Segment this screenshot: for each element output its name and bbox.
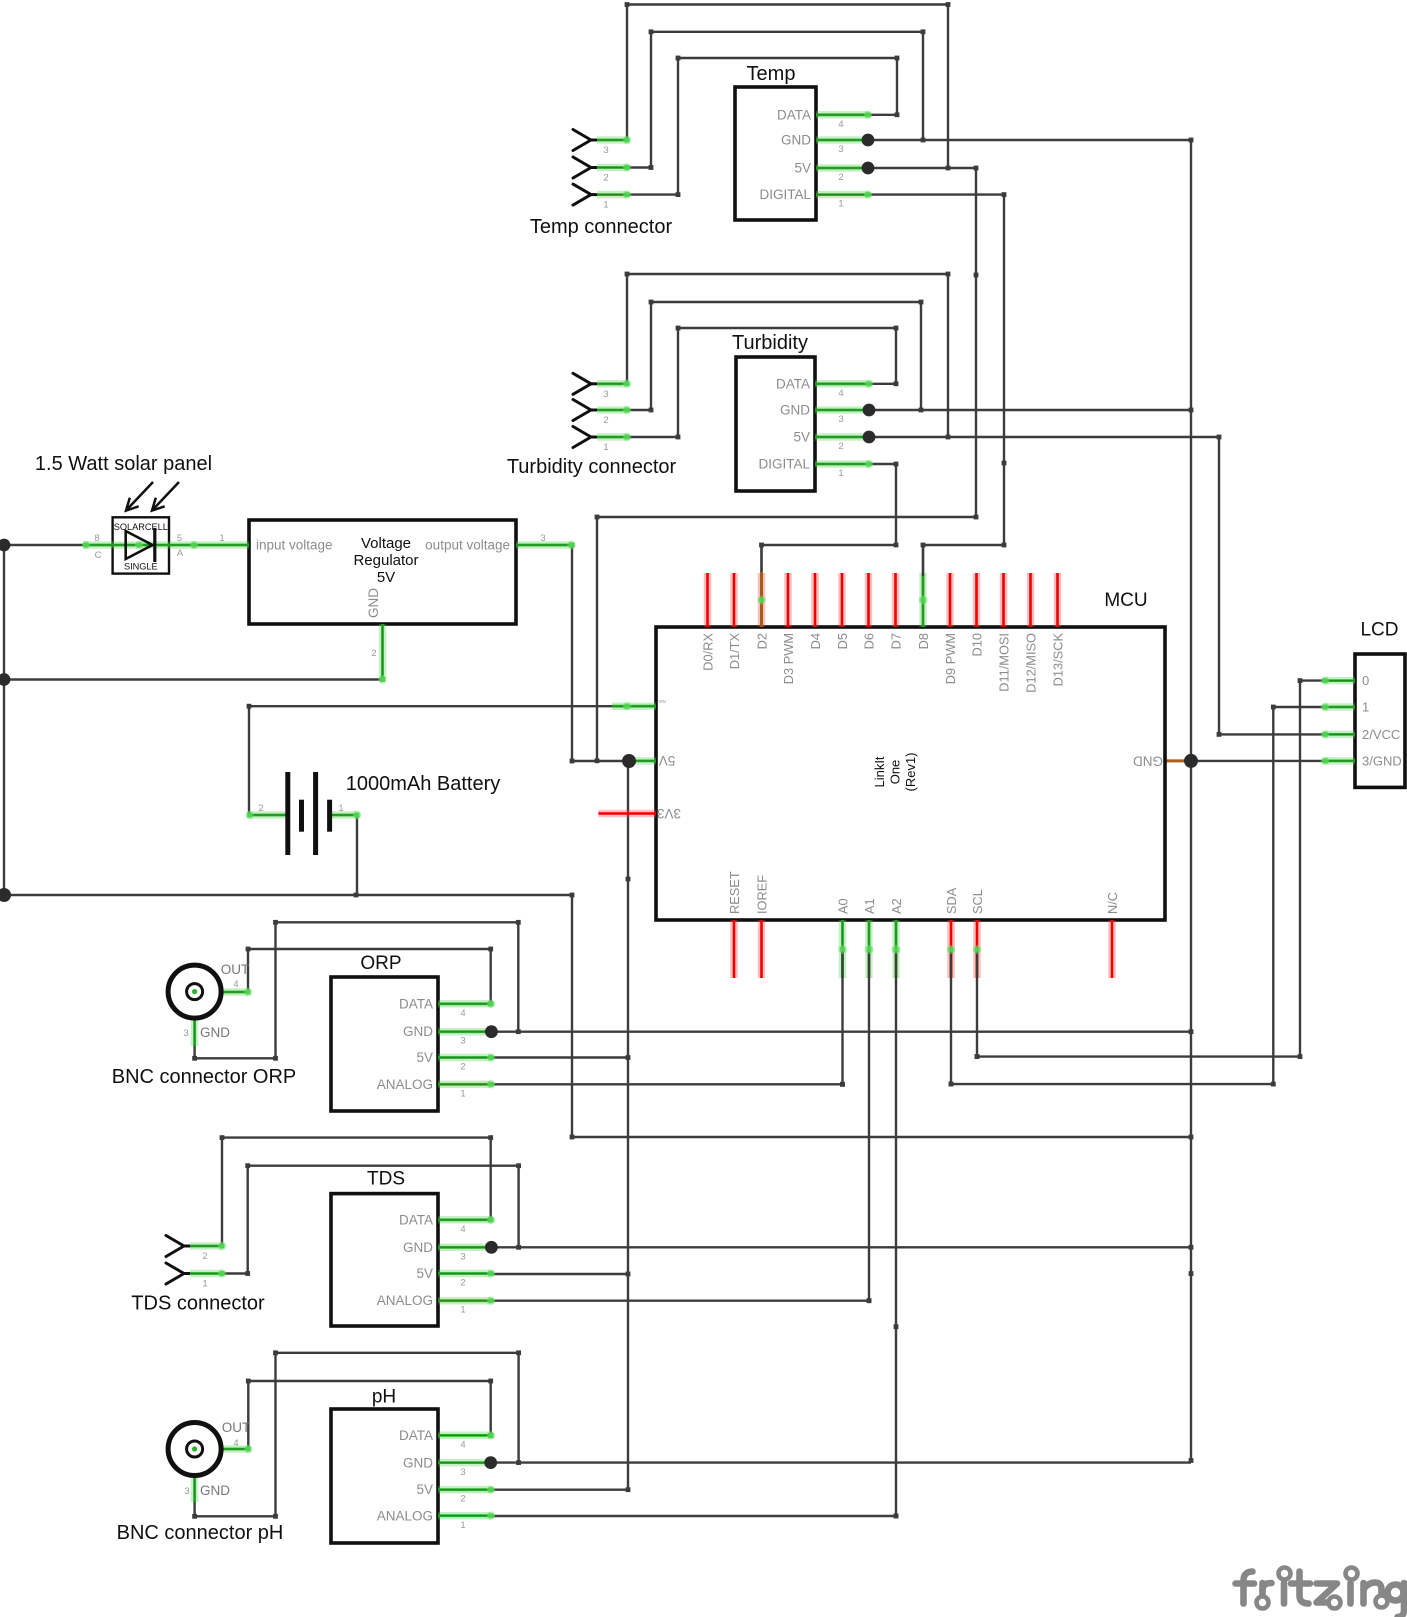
voltage regulator GND stub bbox=[378, 624, 386, 684]
svg-text:A0: A0 bbox=[836, 898, 851, 914]
wire Temp DIGITAL to MCU D8 bbox=[868, 192, 1006, 600]
svg-text:5V: 5V bbox=[377, 569, 395, 586]
svg-text:D7: D7 bbox=[889, 633, 904, 649]
svg-text:GND: GND bbox=[200, 1483, 230, 1498]
BNC connector ORP symbol bbox=[168, 965, 221, 1018]
TDS connector pin2 stub bbox=[190, 1242, 226, 1250]
ORP pin 5V stub bbox=[438, 1053, 495, 1061]
svg-text:D1/TX: D1/TX bbox=[727, 633, 742, 670]
svg-text:RESET: RESET bbox=[727, 871, 742, 914]
wire GND net branch to voltage regulator GND bbox=[4, 678, 383, 680]
wire ORP ANALOG to MCU A0 bbox=[492, 950, 845, 1087]
MCU pin D6 (unconnected, red) bbox=[865, 573, 873, 627]
svg-text:D11/MOSI: D11/MOSI bbox=[997, 633, 1012, 692]
svg-text:3: 3 bbox=[460, 1252, 465, 1263]
TDS pin GND stub bbox=[438, 1244, 491, 1252]
svg-text:2: 2 bbox=[603, 415, 608, 426]
svg-text:3: 3 bbox=[183, 1028, 188, 1039]
svg-text:SCL: SCL bbox=[970, 889, 985, 914]
svg-text:Temp connector: Temp connector bbox=[530, 216, 673, 238]
svg-text:1: 1 bbox=[460, 1088, 465, 1099]
svg-text:8: 8 bbox=[94, 533, 99, 544]
svg-text:Regulator: Regulator bbox=[353, 552, 418, 569]
Turbidity pin 5V stub bbox=[815, 433, 869, 441]
solar irradiance arrow 2 bbox=[152, 482, 179, 511]
svg-text:1: 1 bbox=[460, 1520, 465, 1531]
pH sensor block bbox=[331, 1409, 438, 1543]
battery pin2 stub bbox=[245, 811, 286, 819]
svg-text:DIGITAL: DIGITAL bbox=[758, 457, 810, 472]
MCU pin 3V3 (red) bbox=[598, 810, 656, 818]
svg-text:GND: GND bbox=[1133, 753, 1163, 768]
svg-text:D12/MISO: D12/MISO bbox=[1024, 633, 1039, 693]
ORP pin GND stub bbox=[438, 1028, 491, 1036]
BNC pH OUT stub bbox=[203, 1445, 253, 1453]
svg-text:DIGITAL: DIGITAL bbox=[759, 187, 811, 202]
svg-text:2: 2 bbox=[460, 1493, 465, 1504]
svg-text:GND: GND bbox=[403, 1024, 433, 1039]
TDS connector pin1 stub bbox=[190, 1269, 226, 1277]
wire 5V rail vertical (MCU 5V down to sensors) bbox=[627, 761, 629, 1490]
svg-text:input voltage: input voltage bbox=[256, 538, 333, 553]
svg-text:ANALOG: ANALOG bbox=[377, 1509, 433, 1524]
svg-text:DATA: DATA bbox=[399, 1428, 433, 1443]
svg-text:1: 1 bbox=[219, 533, 224, 544]
wire BNC pH GND loop to pH GND row bbox=[192, 1350, 521, 1518]
svg-text:1: 1 bbox=[603, 442, 608, 453]
wire GND rail to LCD 3/GND bbox=[1191, 760, 1325, 762]
TDS pin DATA stub bbox=[438, 1216, 495, 1224]
LCD block bbox=[1355, 654, 1405, 787]
svg-text:C: C bbox=[95, 550, 102, 561]
LCD pin 1 stub bbox=[1321, 703, 1355, 711]
MCU pin D7 (unconnected, red) bbox=[892, 573, 900, 627]
svg-text:3: 3 bbox=[603, 389, 608, 400]
svg-text:pH: pH bbox=[372, 1387, 396, 1408]
solar cell panel SOLARCELL SINGLE bbox=[113, 517, 169, 573]
svg-text:TDS: TDS bbox=[367, 1169, 405, 1190]
wire Temp connector pin3 to Temp sensor 5V net (top loop) bbox=[625, 2, 951, 168]
svg-text:D3 PWM: D3 PWM bbox=[781, 633, 796, 684]
wire pH 5V row to 5V rail end bbox=[491, 1488, 628, 1490]
wire ORP 5V row to 5V rail bbox=[492, 1056, 629, 1058]
Temp pin DIGITAL stub bbox=[816, 190, 872, 198]
svg-text:N/C: N/C bbox=[1105, 892, 1120, 914]
svg-text:4: 4 bbox=[460, 1439, 465, 1450]
svg-text:5V: 5V bbox=[416, 1266, 433, 1281]
svg-text:5V: 5V bbox=[659, 753, 676, 768]
pH pin 5V stub bbox=[438, 1486, 495, 1494]
solar cell diode symbol bbox=[126, 528, 155, 562]
MCU pin D3 PWM (unconnected, red) bbox=[784, 573, 792, 627]
svg-text:SINGLE: SINGLE bbox=[124, 562, 158, 572]
svg-text:Turbidity: Turbidity bbox=[732, 332, 808, 354]
svg-text:2: 2 bbox=[258, 803, 263, 814]
Turbidity pin DATA stub bbox=[815, 380, 873, 388]
wire Turbidity DIGITAL to MCU D2 bbox=[759, 462, 898, 600]
svg-text:D8: D8 bbox=[916, 633, 931, 649]
pH pin DATA stub bbox=[438, 1431, 495, 1439]
svg-text:GND: GND bbox=[200, 1025, 230, 1040]
junction battery GND rail bbox=[0, 888, 11, 902]
junction pH GND bbox=[484, 1456, 497, 1469]
svg-text:ANALOG: ANALOG bbox=[377, 1293, 433, 1308]
junction Turbidity GND bbox=[863, 404, 876, 417]
svg-text:A2: A2 bbox=[889, 898, 904, 914]
svg-text:OUT: OUT bbox=[222, 1420, 251, 1435]
Turbidity pin GND stub bbox=[815, 406, 869, 414]
MCU pin D13/SCK (unconnected, red) bbox=[1054, 573, 1062, 627]
wire TDS GND row to GND rail bbox=[491, 1246, 1191, 1248]
MCU pin D5 (unconnected, red) bbox=[838, 573, 846, 627]
junction ORP GND bbox=[485, 1025, 498, 1038]
svg-text:ANALOG: ANALOG bbox=[377, 1077, 433, 1092]
wire T-join bendpoints bbox=[946, 166, 951, 171]
svg-text:1: 1 bbox=[838, 468, 843, 479]
MCU pin SCL (connected) bbox=[973, 920, 981, 978]
svg-text:2: 2 bbox=[838, 441, 843, 452]
MCU pin N/C (red) bbox=[1108, 920, 1116, 978]
wire Temp GND row to GND rail bbox=[868, 139, 1191, 141]
wire Temp connector pin1 to Temp sensor DATA bbox=[627, 56, 899, 197]
wire Turbidity connector pin3 to Turbidity 5V net (top loop) bbox=[625, 272, 951, 437]
wire BNC ORP GND loop to ORP GND row bbox=[192, 920, 521, 1061]
svg-text:GND: GND bbox=[403, 1240, 433, 1255]
svg-text:1: 1 bbox=[338, 803, 343, 814]
wire Turbidity 5V row to LCD 2/VCC bbox=[869, 435, 1325, 737]
Temp connector pin1 stub bbox=[597, 190, 631, 198]
Temp connector pin2 stub bbox=[597, 163, 631, 171]
wire TDS 5V row to 5V rail bbox=[492, 1273, 629, 1275]
turbidity sensor block Turbidity bbox=[736, 357, 815, 491]
svg-text:1.5 Watt solar panel: 1.5 Watt solar panel bbox=[35, 453, 212, 475]
junction regulator GND rail bbox=[0, 673, 10, 686]
wire BNC ORP OUT to ORP DATA bbox=[246, 947, 493, 1004]
ORP pin DATA stub bbox=[438, 1000, 495, 1008]
wire MCU SDA to LCD pin 1 bbox=[949, 705, 1325, 1087]
wire pH GND row to GND rail bbox=[491, 1461, 1191, 1463]
MCU pin D11/MOSI (unconnected, red) bbox=[1000, 573, 1008, 627]
svg-text:Temp: Temp bbox=[747, 63, 796, 85]
junction Temp 5V bbox=[862, 162, 875, 175]
solar panel wire through cell to regulator input bbox=[82, 541, 249, 549]
wire GND net: solar panel C / battery minus to GND rail bbox=[2, 543, 1191, 1140]
MCU pin D8 (connected to Temp DIGITAL) bbox=[919, 573, 927, 627]
wire MCU GND pin to GND rail (orange) bbox=[1165, 759, 1191, 762]
MCU pin D10 (unconnected, red) bbox=[973, 573, 981, 627]
svg-text:3: 3 bbox=[838, 144, 843, 155]
wire GND rail vertical bbox=[1190, 140, 1192, 1461]
svg-text:GND: GND bbox=[780, 403, 810, 418]
svg-text:DATA: DATA bbox=[399, 1212, 433, 1227]
svg-text:LCD: LCD bbox=[1360, 620, 1398, 641]
wire ORP GND row to GND rail bbox=[491, 1030, 1191, 1032]
BNC pH GND stub bbox=[191, 1477, 199, 1502]
junction Temp GND bbox=[862, 134, 875, 147]
svg-text:GND: GND bbox=[366, 588, 381, 618]
MCU pin A0 (green, connected) bbox=[839, 920, 847, 978]
svg-text:SOLARCELL: SOLARCELL bbox=[114, 522, 168, 532]
svg-text:0: 0 bbox=[1362, 673, 1369, 688]
svg-text:4: 4 bbox=[460, 1224, 465, 1235]
junction MCU GND / LCD GND bbox=[1184, 754, 1198, 768]
svg-text:D13/SCK: D13/SCK bbox=[1051, 633, 1066, 687]
junction MCU 5V node bbox=[622, 754, 636, 768]
MCU pin D0/RX (unconnected, red) bbox=[704, 573, 712, 627]
svg-text:3: 3 bbox=[838, 414, 843, 425]
svg-text:Turbidity connector: Turbidity connector bbox=[507, 456, 677, 478]
MCU pin D4 (unconnected, red) bbox=[811, 573, 819, 627]
svg-text:TDS connector: TDS connector bbox=[131, 1293, 265, 1315]
svg-text:2: 2 bbox=[460, 1062, 465, 1073]
svg-text:Voltage: Voltage bbox=[361, 535, 411, 552]
svg-text:SDA: SDA bbox=[944, 887, 959, 914]
wire battery pin1 to GND net bbox=[356, 815, 358, 895]
Temp connector J1 forks bbox=[573, 130, 597, 151]
svg-text:D9 PWM: D9 PWM bbox=[943, 633, 958, 684]
ORP pin ANALOG stub bbox=[438, 1080, 495, 1088]
svg-text:1000mAh Battery: 1000mAh Battery bbox=[346, 773, 501, 795]
svg-text:1: 1 bbox=[460, 1304, 465, 1315]
svg-text:GND: GND bbox=[781, 133, 811, 148]
wire Turbidity DATA pin extension bbox=[869, 383, 896, 385]
battery pin1 stub bbox=[330, 811, 361, 819]
ORP sensor block bbox=[331, 977, 438, 1111]
MCU pin RESET (red) bbox=[730, 920, 738, 978]
svg-text:D10: D10 bbox=[970, 633, 985, 656]
svg-text:VIN: VIN bbox=[658, 699, 666, 704]
svg-text:3: 3 bbox=[603, 145, 608, 156]
svg-text:2: 2 bbox=[460, 1278, 465, 1289]
wire TDS connector pin2 to TDS DATA bbox=[220, 1135, 493, 1246]
TDS sensor block bbox=[331, 1194, 438, 1326]
MCU pin D12/MISO (unconnected, red) bbox=[1027, 573, 1035, 627]
BNC ORP OUT stub bbox=[203, 988, 252, 996]
wire battery pin2 to MCU VIN bbox=[247, 704, 612, 815]
svg-text:4: 4 bbox=[838, 388, 843, 399]
MCU pin SDA (connected) bbox=[947, 920, 955, 978]
wire Turbidity connector pin2 to Turbidity GND net bbox=[627, 300, 923, 413]
wire Temp DATA pin extension bbox=[868, 114, 897, 116]
svg-text:1: 1 bbox=[1362, 700, 1369, 715]
fritzing watermark logo bbox=[1236, 1572, 1405, 1617]
svg-text:D6: D6 bbox=[862, 633, 877, 649]
TDS pin 5V stub bbox=[438, 1269, 495, 1277]
svg-text:5V: 5V bbox=[416, 1050, 433, 1065]
wire Temp 5V row to MCU 5V node bbox=[595, 166, 979, 761]
Temp pin GND stub bbox=[816, 136, 868, 144]
LCD pin 3/GND stub bbox=[1321, 757, 1355, 765]
BNC connector pH symbol bbox=[168, 1423, 221, 1476]
svg-text:2: 2 bbox=[603, 173, 608, 184]
pH pin ANALOG stub bbox=[438, 1512, 495, 1520]
LCD pin 2/VCC stub bbox=[1321, 730, 1355, 738]
MCU pin A2 (green, connected) bbox=[892, 920, 900, 978]
MCU pin D1/TX (unconnected, red) bbox=[730, 573, 738, 627]
svg-text:3: 3 bbox=[540, 533, 545, 544]
pH pin GND stub bbox=[438, 1459, 491, 1467]
svg-text:4: 4 bbox=[233, 979, 238, 990]
Turbidity connector pin2 stub bbox=[597, 406, 631, 414]
battery BT1 symbol 1000mAh bbox=[288, 772, 330, 855]
MCU LinkIt One block bbox=[656, 627, 1165, 920]
solar irradiance arrow 1 bbox=[126, 482, 153, 511]
svg-text:GND: GND bbox=[403, 1456, 433, 1471]
svg-text:2: 2 bbox=[838, 172, 843, 183]
MCU pin 5V (green) bbox=[629, 757, 656, 765]
svg-text:1: 1 bbox=[838, 199, 843, 210]
svg-text:5V: 5V bbox=[416, 1482, 433, 1497]
Turbidity connector pin3 stub bbox=[597, 380, 631, 388]
wire TDS connector pin1 to TDS GND net bbox=[222, 1163, 521, 1276]
svg-text:1: 1 bbox=[603, 200, 608, 211]
svg-text:D0/RX: D0/RX bbox=[701, 633, 716, 671]
svg-text:DATA: DATA bbox=[777, 107, 811, 122]
svg-text:2: 2 bbox=[202, 1251, 207, 1262]
MCU pin D9 PWM (unconnected, red) bbox=[946, 573, 954, 627]
svg-text:5V: 5V bbox=[793, 430, 810, 445]
junction Turbidity 5V bbox=[863, 431, 876, 444]
MCU pin IOREF (red) bbox=[758, 920, 766, 978]
junction solar cell cathode rail bbox=[0, 539, 10, 552]
voltage regulator U1 5V bbox=[249, 520, 516, 624]
svg-text:3V3: 3V3 bbox=[657, 806, 681, 821]
svg-text:DATA: DATA bbox=[399, 996, 433, 1011]
Temp connector pin3 stub bbox=[597, 136, 631, 144]
svg-text:D5: D5 bbox=[835, 633, 850, 649]
svg-text:3: 3 bbox=[184, 1486, 189, 1497]
TDS connector J3 forks bbox=[166, 1236, 190, 1257]
svg-text:OUT: OUT bbox=[221, 962, 250, 977]
junction TDS GND bbox=[485, 1241, 498, 1254]
svg-text:3/GND: 3/GND bbox=[1362, 753, 1402, 768]
voltage regulator output stub bbox=[516, 541, 576, 549]
Turbidity pin DIGITAL stub bbox=[815, 460, 873, 468]
svg-text:4: 4 bbox=[233, 1438, 238, 1449]
svg-text:5: 5 bbox=[177, 533, 182, 544]
LCD pin 0 stub bbox=[1321, 676, 1355, 684]
Turbidity connector J2 forks bbox=[573, 373, 597, 394]
wire Temp connector pin2 to Temp sensor GND net bbox=[627, 29, 925, 170]
svg-text:2: 2 bbox=[371, 648, 376, 659]
TDS pin ANALOG stub bbox=[438, 1297, 495, 1305]
svg-text:ORP: ORP bbox=[360, 953, 401, 974]
svg-text:5V: 5V bbox=[794, 161, 811, 176]
svg-text:4: 4 bbox=[460, 1008, 465, 1019]
wire voltage regulator output to MCU 5V node bbox=[570, 545, 629, 763]
wire MCU SCL to LCD pin 0 bbox=[975, 678, 1325, 1059]
svg-text:IOREF: IOREF bbox=[755, 875, 770, 914]
Turbidity connector pin1 stub bbox=[597, 433, 631, 441]
wire Turbidity connector pin1 to Turbidity DATA bbox=[627, 326, 898, 440]
temp sensor block Temp bbox=[735, 87, 816, 220]
svg-text:3: 3 bbox=[460, 1036, 465, 1047]
svg-text:BNC connector pH: BNC connector pH bbox=[117, 1522, 284, 1544]
svg-text:output voltage: output voltage bbox=[425, 538, 510, 553]
svg-text:1: 1 bbox=[202, 1279, 207, 1290]
svg-text:2/VCC: 2/VCC bbox=[1362, 727, 1400, 742]
svg-text:DATA: DATA bbox=[776, 376, 810, 391]
wire Turbidity GND row to GND rail bbox=[869, 409, 1191, 411]
svg-text:4: 4 bbox=[838, 119, 843, 130]
svg-text:D4: D4 bbox=[808, 633, 823, 649]
svg-text:A1: A1 bbox=[862, 898, 877, 914]
MCU pin VIN (green) bbox=[612, 702, 656, 710]
wire MCU A1 to TDS ANALOG bbox=[492, 950, 872, 1304]
Temp pin 5V stub bbox=[816, 164, 868, 172]
BNC ORP GND stub bbox=[191, 1020, 199, 1046]
MCU pin A1 (green, connected) bbox=[865, 920, 873, 978]
Temp pin DATA stub bbox=[816, 111, 872, 119]
wire MCU A2 to pH ANALOG bbox=[491, 950, 899, 1519]
svg-text:MCU: MCU bbox=[1104, 590, 1147, 611]
MCU pin D2 (connected to Turbidity DIGITAL) bbox=[758, 573, 766, 627]
svg-text:A: A bbox=[177, 548, 184, 559]
svg-text:BNC connector ORP: BNC connector ORP bbox=[112, 1066, 297, 1088]
svg-text:3: 3 bbox=[460, 1467, 465, 1478]
svg-text:D2: D2 bbox=[755, 633, 770, 649]
wire BNC pH OUT to pH DATA bbox=[246, 1379, 493, 1449]
